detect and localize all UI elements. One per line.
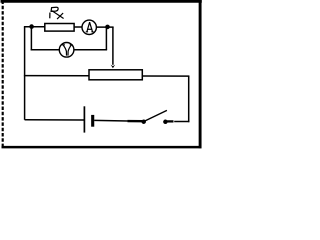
wire top left segment [24,26,45,28]
frame top border [1,0,202,3]
frame right border [199,0,202,148]
wire voltmeter branch right vertical [105,27,107,50]
voltmeter U=V circle [59,43,74,58]
label A [86,23,93,32]
frame left dashed border [2,1,4,149]
wire voltmeter branch left horizontal [31,49,60,51]
ammeter U=A circle [82,20,96,34]
label V [62,45,72,55]
wire resistor to ammeter [74,26,82,28]
wire rheostat right [142,75,189,77]
wire ammeter to corner [96,26,113,28]
wire bottom left [25,119,85,121]
rheostat body [89,70,142,80]
wire right vertical [188,76,190,122]
node junction dot right [105,25,110,30]
switch left terminal bar [128,120,143,122]
wire slider feed vertical [112,27,114,65]
switch right contact dot [163,120,168,125]
switch pivot dot [141,119,146,124]
battery long plate [83,106,85,132]
wire switch to right corner [174,121,189,123]
frame bottom border [2,146,202,149]
wire left vertical [24,27,26,120]
wire rheostat left [24,75,89,77]
resistor R_x [45,24,74,32]
battery short plate [91,115,94,127]
switch right terminal bar [167,120,174,122]
label Rx [50,7,63,18]
wire voltmeter branch right horizontal [74,49,107,51]
switch blade [145,110,167,121]
wire battery to switch [94,119,128,122]
wire voltmeter branch left vertical [30,27,32,51]
node junction dot left [29,24,34,29]
arrow head onto rheostat [111,65,116,69]
